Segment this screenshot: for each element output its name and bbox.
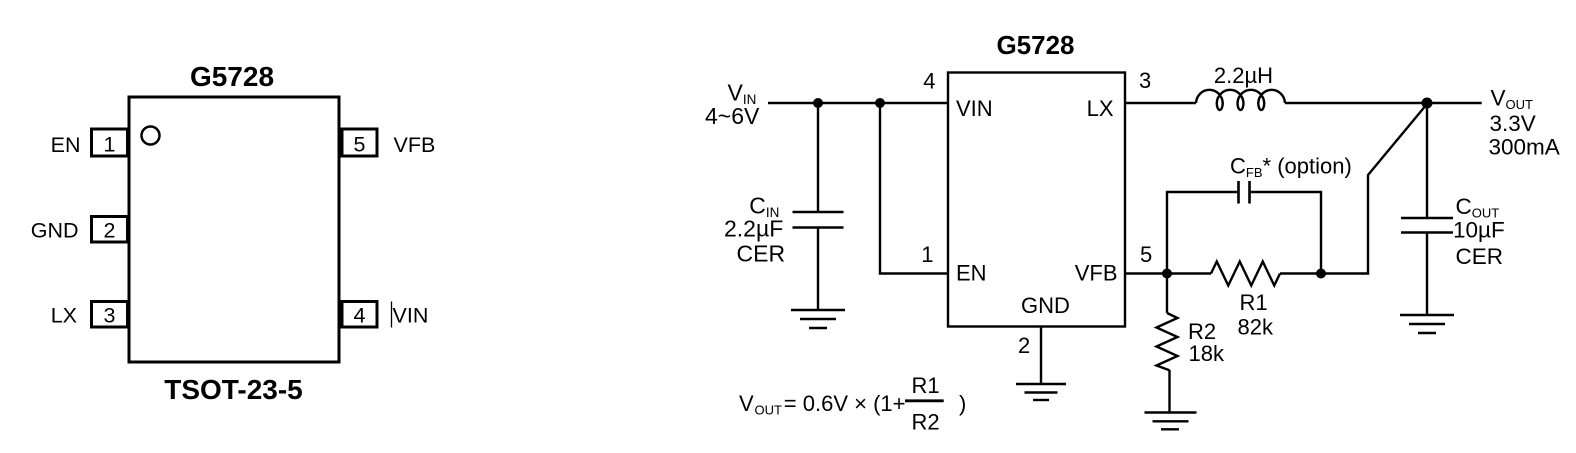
svg-text:4: 4 <box>923 69 935 94</box>
svg-text:LX: LX <box>1087 96 1114 121</box>
svg-text:2: 2 <box>1018 333 1030 358</box>
svg-text:VIN: VIN <box>393 304 429 328</box>
svg-text:OUT: OUT <box>755 403 783 418</box>
svg-text:1: 1 <box>104 133 116 157</box>
svg-text:2.2µH: 2.2µH <box>1214 63 1273 88</box>
svg-text:10µF: 10µF <box>1453 218 1505 243</box>
svg-text:): ) <box>959 391 966 416</box>
svg-text:CER: CER <box>737 241 786 267</box>
svg-text:300mA: 300mA <box>1489 135 1560 160</box>
svg-text:R1: R1 <box>1240 290 1268 315</box>
svg-text:VIN: VIN <box>956 96 993 121</box>
svg-text:3: 3 <box>1139 68 1151 93</box>
svg-text:CER: CER <box>1456 244 1504 269</box>
svg-text:EN: EN <box>51 133 81 157</box>
svg-text:2.2µF: 2.2µF <box>724 216 783 242</box>
svg-text:1: 1 <box>921 242 933 267</box>
svg-text:R2: R2 <box>912 410 940 435</box>
svg-text:2: 2 <box>104 219 116 243</box>
svg-text:TSOT-23-5: TSOT-23-5 <box>164 374 302 405</box>
svg-text:5: 5 <box>354 133 366 157</box>
svg-text:= 0.6V × (1+: = 0.6V × (1+ <box>784 391 906 416</box>
svg-text:5: 5 <box>1140 242 1152 267</box>
svg-text:82k: 82k <box>1238 315 1274 340</box>
svg-text:VFB: VFB <box>1075 261 1118 286</box>
svg-text:EN: EN <box>956 261 987 286</box>
svg-text:V: V <box>739 391 754 416</box>
svg-text:3.3V: 3.3V <box>1490 111 1536 136</box>
svg-text:G5728: G5728 <box>996 30 1074 60</box>
svg-text:LX: LX <box>51 304 77 328</box>
svg-text:G5728: G5728 <box>190 61 274 92</box>
svg-text:18k: 18k <box>1189 341 1225 366</box>
svg-text:4~6V: 4~6V <box>705 103 760 129</box>
svg-text:GND: GND <box>1021 293 1070 318</box>
svg-text:4: 4 <box>354 304 366 328</box>
svg-text:3: 3 <box>104 304 116 328</box>
svg-text:VFB: VFB <box>394 133 436 157</box>
svg-text:R1: R1 <box>912 373 940 398</box>
svg-text:GND: GND <box>31 219 79 243</box>
